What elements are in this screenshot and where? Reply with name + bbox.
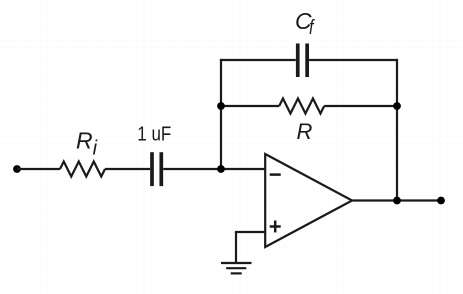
wire top feedback left segment	[220, 59, 296, 61]
node junction left R row	[217, 102, 225, 110]
wire top feedback right segment	[309, 59, 398, 61]
node output junction	[393, 197, 401, 205]
wire input terminal to Ri	[17, 168, 60, 170]
wire output	[352, 199, 441, 201]
wire R row right segment	[324, 105, 397, 107]
svg-text:1 uF: 1 uF	[137, 123, 171, 145]
node junction right R row	[393, 102, 401, 110]
wire C1 to op-amp inverting input	[163, 168, 265, 170]
svg-text:R: R	[297, 119, 313, 144]
wire left vertical feedback riser	[220, 59, 222, 169]
wire Ri to C1	[105, 168, 150, 170]
op-amp U1 plus symbol	[270, 221, 281, 233]
node OUT terminal	[437, 197, 445, 205]
capacitor C1 1 uF plates	[150, 152, 154, 186]
node summing junction	[217, 165, 225, 173]
ground	[221, 263, 252, 273]
wire right vertical feedback drop	[396, 59, 398, 201]
node IN terminal	[13, 165, 21, 173]
capacitor Cf plates	[296, 44, 300, 78]
resistor Ri	[60, 162, 105, 177]
wire R row left segment	[221, 105, 279, 107]
op-amp U1 triangle	[265, 154, 352, 247]
wire ground stem	[235, 232, 237, 263]
op-amp U1 minus symbol	[270, 173, 281, 176]
wire non-inverting input	[235, 231, 266, 233]
resistor R	[279, 99, 324, 114]
